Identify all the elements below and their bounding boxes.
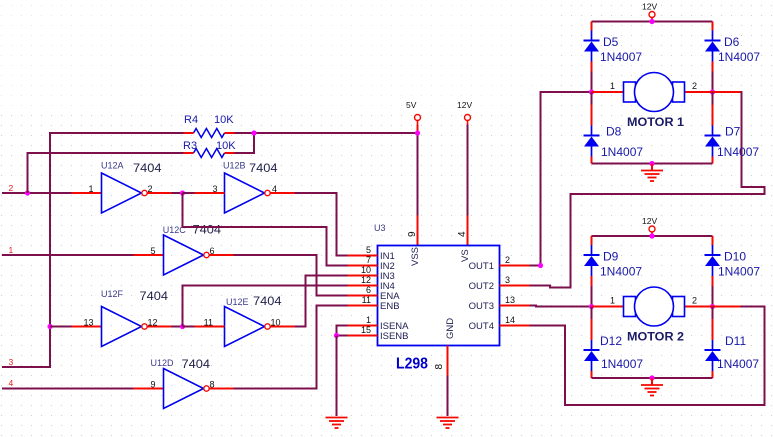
wire motor2 bottom rail: [592, 377, 713, 379]
wire OUT4 to motor2 pin2: [530, 307, 765, 406]
svg-text:2: 2: [692, 296, 697, 306]
svg-text:7: 7: [366, 255, 371, 265]
svg-text:D10: D10: [724, 250, 746, 264]
svg-text:7404: 7404: [133, 163, 162, 175]
wire input 3 to R4 vertical: [2, 133, 184, 367]
ground: [641, 171, 663, 182]
ground: [326, 418, 348, 429]
ground: [641, 385, 663, 396]
wire R4 to 5V junction: [235, 132, 418, 134]
svg-text:3: 3: [9, 357, 14, 367]
svg-text:5: 5: [150, 246, 155, 256]
wire ISENB to tie: [337, 335, 348, 337]
wire bridge1 left upper: [591, 22, 593, 24]
junction ISEN tie: [334, 333, 339, 338]
svg-text:D7: D7: [725, 125, 741, 139]
svg-text:U12A: U12A: [101, 161, 124, 171]
wire GND pin to ground: [447, 376, 449, 417]
wire motor2 ground stub: [651, 378, 653, 385]
wire to U12B input: [183, 192, 195, 194]
inverter U12E 7404: [204, 296, 283, 347]
svg-text:3: 3: [505, 275, 510, 285]
junction R3/R4: [251, 130, 256, 135]
wire motor1 ground stub: [651, 164, 653, 171]
pin 9 stub U12D: [134, 388, 164, 390]
pin 1 stub U12A: [72, 192, 102, 194]
svg-text:VS: VS: [460, 249, 471, 262]
svg-text:1N4007: 1N4007: [718, 50, 760, 64]
pin 12 stub U12F out: [148, 326, 172, 328]
svg-text:7404: 7404: [249, 163, 278, 175]
wire OUT3 to motor2 pin1: [530, 306, 592, 307]
junction motor2 ground: [649, 375, 654, 380]
wire OUT2 to motor1 pin2: [530, 92, 765, 288]
svg-text:OUT2: OUT2: [469, 281, 494, 292]
svg-text:9: 9: [407, 231, 418, 237]
svg-text:11: 11: [362, 295, 371, 305]
junction OUT1 corner: [538, 263, 543, 268]
pin 5 stub U12C: [134, 254, 164, 256]
junction motor1 pin2: [710, 89, 715, 94]
svg-text:6: 6: [366, 285, 371, 295]
svg-text:OUT1: OUT1: [469, 261, 494, 272]
svg-text:2: 2: [505, 255, 510, 265]
diode D12 1N4007: [584, 319, 644, 378]
wire U12E out to IN3: [295, 276, 348, 327]
wire bridge2 left upper: [591, 236, 593, 238]
pin 4 stub VS: [467, 216, 469, 246]
wire bridge1 right upper: [712, 22, 714, 24]
pin 11 stub ENB: [348, 305, 378, 307]
svg-text:1N4007: 1N4007: [717, 357, 759, 371]
pin 2 stub OUT1: [500, 265, 530, 267]
svg-text:1N4007: 1N4007: [717, 145, 759, 159]
inverter U12A 7404: [88, 161, 162, 214]
inverter U12C 7404: [150, 225, 221, 276]
svg-text:1N4007: 1N4007: [600, 50, 642, 64]
wire U12A out to junction: [172, 192, 183, 194]
junction input3/U12F: [47, 324, 52, 329]
wire motor2 pin2 out: [713, 306, 741, 308]
wire U12F input: [50, 326, 72, 328]
pin 10 stub IN3: [348, 275, 378, 277]
svg-text:D5: D5: [603, 35, 619, 49]
diode D8 1N4007: [584, 105, 644, 164]
pin 3 stub U12B in: [195, 192, 225, 194]
svg-text:2: 2: [9, 183, 14, 193]
wire U12A out to IN2 (via y227): [183, 193, 348, 266]
motor MOTOR 2: [592, 287, 713, 344]
wire 5V down to VSS: [417, 125, 419, 134]
inverter U12B 7404: [212, 161, 278, 214]
svg-text:1N4007: 1N4007: [601, 145, 643, 159]
svg-text:D12: D12: [600, 334, 622, 348]
svg-text:14: 14: [505, 315, 515, 325]
pin 2 stub U12A out: [148, 192, 172, 194]
junction input2/R3: [25, 190, 30, 195]
resistor R3 10K: [183, 140, 236, 158]
diode D7 1N4007: [705, 105, 760, 164]
svg-text:D8: D8: [606, 125, 622, 139]
svg-text:4: 4: [457, 231, 468, 237]
svg-text:ISENB: ISENB: [380, 331, 409, 342]
motor MOTOR 1: [592, 73, 713, 130]
svg-text:OUT4: OUT4: [469, 321, 494, 332]
diode D5 1N4007: [584, 22, 643, 72]
svg-text:12V: 12V: [642, 216, 657, 226]
wire motor1 top rail: [592, 21, 713, 23]
svg-text:ENB: ENB: [380, 301, 400, 312]
svg-text:1: 1: [9, 245, 14, 255]
junction 12V motor2: [649, 233, 654, 238]
svg-text:13: 13: [83, 318, 93, 328]
svg-text:U12F: U12F: [101, 289, 124, 299]
pin 11 stub U12E in: [195, 326, 225, 328]
svg-text:D11: D11: [725, 334, 746, 348]
power 12V: [642, 2, 657, 23]
svg-text:9: 9: [150, 380, 155, 390]
svg-text:1: 1: [610, 296, 615, 306]
pin 3 stub OUT2: [500, 285, 530, 287]
wire U12D out to ENB: [234, 306, 348, 389]
wire bridge1 left lower: [591, 92, 593, 105]
junction motor2 pin2: [710, 304, 715, 309]
svg-text:4: 4: [9, 378, 14, 388]
svg-text:D9: D9: [603, 250, 619, 264]
svg-text:15: 15: [361, 325, 371, 335]
pin 1 stub ISENA: [348, 325, 378, 327]
wire ISENA to tie: [337, 326, 348, 336]
svg-text:L298: L298: [396, 356, 428, 373]
wire R3 drop: [28, 153, 184, 193]
pin 9 stub VSS: [417, 216, 419, 246]
svg-text:D6: D6: [724, 35, 740, 49]
svg-text:GND: GND: [445, 318, 456, 339]
pin 8 stub GND: [447, 346, 449, 376]
svg-text:1N4007: 1N4007: [601, 357, 643, 371]
junction U12A out: [180, 190, 185, 195]
pin 10 stub U12E out: [271, 326, 295, 328]
diode D6 1N4007: [705, 22, 761, 72]
wire ISEN tie to ground: [336, 336, 338, 417]
pin 4 stub U12B out: [271, 192, 295, 194]
junction motor1 pin1: [589, 89, 594, 94]
wire U12F out to IN4: [183, 286, 348, 327]
svg-text:R4: R4: [184, 114, 198, 126]
pin 6 stub ENA: [348, 295, 378, 297]
svg-text:10: 10: [361, 265, 371, 275]
wire bridge1 right lower: [712, 92, 714, 105]
pin 13 stub U12F: [72, 326, 102, 328]
wire motor2 top rail: [592, 235, 713, 237]
IC U3 L298 body: [378, 246, 500, 346]
inverter U12D 7404: [150, 358, 214, 409]
wire R3 right joins R4 row: [235, 133, 255, 153]
wire 12V down to VS: [467, 125, 469, 216]
svg-text:VSS: VSS: [410, 247, 421, 266]
wire motor1 pin2 out: [713, 91, 741, 93]
ground: [437, 418, 459, 429]
svg-text:U3: U3: [374, 223, 386, 233]
wire bridge2 right upper: [712, 236, 714, 238]
pin 14 stub OUT4: [500, 325, 530, 327]
svg-text:1: 1: [88, 184, 93, 194]
power 5V: [406, 100, 421, 125]
svg-text:U12E: U12E: [226, 297, 249, 307]
wire input 4: [2, 388, 134, 390]
junction 12V motor1: [649, 19, 654, 24]
svg-text:U12D: U12D: [151, 358, 175, 368]
svg-text:2: 2: [692, 81, 697, 91]
junction motor2 pin1: [589, 304, 594, 309]
wire to U12E input: [183, 326, 195, 328]
diode D10 1N4007: [705, 236, 761, 286]
wire OUT1 to motor1 pin1: [530, 265, 541, 267]
svg-text:MOTOR 1: MOTOR 1: [627, 117, 685, 129]
svg-text:1N4007: 1N4007: [718, 265, 760, 279]
wire U12C out to ENA: [234, 255, 348, 296]
svg-text:R3: R3: [183, 140, 197, 152]
svg-text:1: 1: [366, 315, 371, 325]
wire U12F out to junction: [172, 326, 183, 328]
diode D9 1N4007: [584, 236, 643, 286]
pin 5 stub IN1: [348, 255, 378, 257]
svg-text:12: 12: [361, 275, 371, 285]
resistor R4 10K: [184, 114, 235, 138]
pin 12 stub IN4: [348, 285, 378, 287]
svg-text:5V: 5V: [406, 100, 417, 110]
svg-text:MOTOR 2: MOTOR 2: [627, 332, 684, 344]
diode D11 1N4007: [705, 319, 760, 378]
pin 13 stub OUT3: [500, 305, 530, 307]
pin 15 stub ISENB: [348, 335, 378, 337]
svg-text:OUT3: OUT3: [469, 301, 494, 312]
wire input 1: [2, 254, 134, 256]
wire bridge2 left lower: [591, 307, 593, 320]
pin 7 stub IN2: [348, 265, 378, 267]
svg-text:U12B: U12B: [223, 161, 246, 171]
pin 6 stub U12C out: [210, 254, 234, 256]
svg-text:5: 5: [366, 245, 371, 255]
pin 8 stub U12D out: [210, 388, 234, 390]
junction motor1 ground: [649, 161, 654, 166]
svg-text:7404: 7404: [140, 291, 169, 303]
svg-text:7404: 7404: [253, 296, 282, 308]
svg-text:10K: 10K: [216, 140, 236, 152]
wire U12B out to IN1: [295, 193, 348, 256]
svg-text:8: 8: [434, 364, 445, 370]
svg-text:12V: 12V: [457, 100, 472, 110]
junction 5V/R4 row: [415, 130, 420, 135]
junction U12F out: [180, 324, 185, 329]
wire motor1 bottom rail: [592, 163, 713, 165]
svg-text:10K: 10K: [214, 114, 234, 126]
wire input 2: [2, 192, 28, 194]
svg-text:12V: 12V: [642, 2, 657, 12]
svg-text:1N4007: 1N4007: [600, 265, 642, 279]
svg-text:13: 13: [505, 295, 515, 305]
power 12V: [642, 216, 657, 237]
svg-text:1: 1: [610, 81, 615, 91]
wire bridge2 right lower: [712, 307, 714, 320]
power 12V: [457, 100, 472, 125]
svg-text:7404: 7404: [182, 359, 211, 371]
inverter U12F 7404: [83, 289, 168, 347]
